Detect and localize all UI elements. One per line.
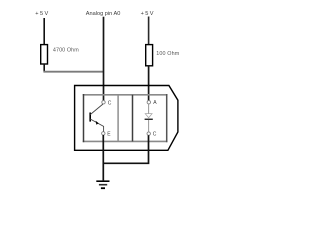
pin A (LED anode) [147,101,150,104]
wire from right +5V to R2 [148,17,150,46]
LED D1 cathode bar [145,118,153,120]
U1 inner body top edge [83,94,168,96]
svg-text:4700 Ohm: 4700 Ohm [53,48,79,54]
resistor R1 4700 Ohm [41,45,48,64]
wire R2 to pin A [148,66,150,101]
ground bar 1 [96,180,109,182]
svg-text:+5V: +5V [141,11,155,17]
svg-text:E: E [107,131,111,137]
U1 inner divider left [117,95,119,142]
U1 inner body left edge [83,94,85,142]
ground bar 2 [99,184,107,186]
wire pin C (cathode) down and left to ground net [103,135,149,163]
LED D1 triangle [145,114,152,118]
LED D1 anode lead [148,104,150,114]
svg-text:C: C [153,132,157,138]
pin E (phototransistor emitter) [102,132,105,135]
wire Analog pin A0 vertical [103,17,105,101]
pin C (phototransistor collector) [102,101,105,104]
resistor R2 100 Ohm [146,45,153,66]
wire pin E to ground [102,135,104,180]
wire from left +5V to R1 [43,18,45,45]
U1 inner divider right [132,95,134,142]
svg-text:C: C [108,100,112,106]
svg-text:100 Ohm: 100 Ohm [156,51,180,57]
U1 inner body right edge [166,94,168,142]
LED D1 cathode lead [148,120,150,132]
svg-text:+5V: +5V [35,11,49,17]
ground bar 3 [101,187,105,189]
U1 inner body bottom edge [83,140,168,142]
wire R1 down [43,64,45,72]
Q1 collector lead [90,104,103,115]
svg-text:Analog pin A0: Analog pin A0 [86,11,121,17]
Q1 emitter arrow [96,121,99,125]
pin C (LED cathode) [147,132,150,135]
svg-text:A: A [153,100,157,106]
wire R1 to A0 net (horizontal) [43,71,103,73]
phototransistor Q1 base bar [89,113,91,122]
Q1 emitter lead [90,119,103,132]
optocoupler U1 package outline [75,86,178,151]
